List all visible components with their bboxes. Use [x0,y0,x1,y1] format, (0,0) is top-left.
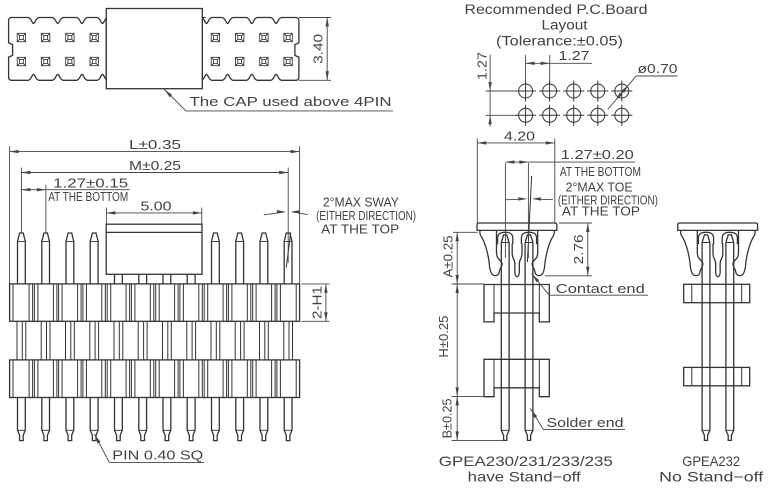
dimension 5.00 (cap width front view) [105,208,107,224]
top view pin square row2 col2 (left) [41,57,50,65]
sway indicator arcs and arrows [264,212,284,215]
front view cap top rib line [106,231,202,233]
front view pin 7 stub below cap [163,274,171,284]
crown left leg with claw hook [681,230,703,275]
front view bottom pin 11 with solder tip [260,398,268,441]
crown right leg with claw hook [532,230,554,275]
dimension 1.27±0.20 line [505,161,635,163]
crown top flange (cap side view) [678,223,758,230]
front view bottom pin 5 with solder tip [115,398,123,441]
svg-text:M±0.25: M±0.25 [129,158,181,173]
svg-text:2-H1: 2-H1 [310,286,325,319]
top view pin square row2 col3 (right) [260,57,268,65]
front view pin 8 stub below cap [187,274,195,284]
svg-text:5.00: 5.00 [141,198,172,213]
top view pin square row2 col2 (right) [236,57,244,65]
front view top pin 3 [66,233,74,284]
toe indicator arrows [506,198,525,201]
leader line for cap note [164,89,393,111]
front view bottom pin 7 with solder tip [163,398,171,441]
front view bottom pin 12 with solder tip [284,398,292,441]
PCB hole row1 col3 (circle with crosshair) [563,81,584,102]
front view top pin 1 [18,233,26,284]
svg-text:L±0.35: L±0.35 [129,137,181,152]
svg-text:Solder end: Solder end [547,415,624,430]
svg-text:1.27: 1.27 [559,48,590,63]
side view B pin 1 (left) [702,235,710,243]
crown right finger dome (pin tip cover) [722,232,737,244]
svg-text:(EITHER DIRECTION): (EITHER DIRECTION) [316,209,416,223]
svg-text:3.40: 3.40 [311,34,326,64]
crown left finger dome (pin tip cover) [498,232,513,244]
dimension B±0.25 [452,439,504,441]
front view top pin 10 [236,233,244,284]
svg-text:GPEA230/231/233/235: GPEA230/231/233/235 [439,453,613,469]
dimension extension lines for 1.27±0.20 (pin centerlines) [504,163,506,258]
PCB hole row2 col2 (circle with crosshair) [539,105,560,126]
svg-text:GPEA232: GPEA232 [682,453,740,469]
side view A upper insulator with stand-off feet [484,285,549,322]
svg-text:2.76: 2.76 [571,234,586,264]
leader Contact end [532,274,649,296]
crown right leg with claw hook [733,230,755,275]
side view A lower insulator with stand-off feet [484,359,549,396]
top view pin square row1 col3 (right) [260,33,268,41]
dimension 2.76 (crown height) [559,222,592,224]
svg-text:1.27±0.15: 1.27±0.15 [53,175,128,190]
leader Solder end [530,409,625,430]
dimension 1.27±0.15 [45,185,47,233]
svg-text:B±0.25: B±0.25 [439,398,454,438]
crown web left wall (curls to web bottom) [713,244,718,277]
front view pin 5 stub below cap [115,274,123,284]
PCB hole row2 col5 (circle with crosshair) [611,105,632,126]
top view pin square row1 col2 (left) [41,33,50,41]
crown left finger dome (pin tip cover) [698,232,713,244]
front view bottom pin 10 with solder tip [236,398,244,441]
PCB hole row2 col3 (circle with crosshair) [563,105,584,126]
svg-text:4.20: 4.20 [504,128,535,143]
front view pin 6 stub below cap [139,274,147,284]
front view top pin 12 [284,233,292,284]
svg-text:A±0.25: A±0.25 [440,236,455,278]
svg-text:AT THE BOTTOM: AT THE BOTTOM [48,190,128,204]
svg-text:2°MAX SWAY: 2°MAX SWAY [323,196,400,210]
PCB hole row2 col4 (circle with crosshair) [587,105,608,126]
side view A pin 1 (left) [501,235,509,243]
svg-text:Contact end: Contact end [556,281,645,296]
dimension H±0.25 [452,395,485,397]
front view bottom pin 8 with solder tip [187,398,195,441]
side view B lower insulator (no stand-off) [684,367,750,385]
dimension L±0.35 [9,146,11,284]
dimension 4.20 (cap width, side view) [476,139,478,224]
side view B pin 2 (right) [726,235,734,243]
dimension 1.27 horizontal (PCB col pitch) [525,55,527,83]
front view bottom pin 9 with solder tip [212,398,220,441]
svg-text:The CAP used above 4PIN: The CAP used above 4PIN [190,94,392,109]
front view bottom pin 2 with solder tip [42,398,50,441]
front view bottom pin 4 with solder tip [90,398,98,441]
top view: right housing body of header (scalloped outline) [201,18,299,81]
top view pin square row1 col1 (right) [211,33,219,41]
PCB hole row1 col2 (circle with crosshair) [539,81,560,102]
front view top pin 4 [90,233,98,284]
dimension 3.40 (cap top view height) [299,17,331,19]
crown web right wall (curls to web bottom) [718,244,723,277]
leader PIN 0.40 SQ [94,434,204,463]
crown top flange (cap side view) [477,223,557,230]
crown web left wall (curls to web bottom) [512,244,517,277]
top view pin square row1 col2 (right) [236,33,244,41]
crown left leg with claw hook [480,230,502,275]
front view top pin 11 [260,233,268,284]
front view top pin 9 [212,233,220,284]
cap (top view rectangle) [106,9,202,89]
svg-text:No Stand−off: No Stand−off [659,468,763,484]
side view B upper insulator (no stand-off) [684,284,750,302]
svg-text:PIN 0.40 SQ: PIN 0.40 SQ [112,448,203,463]
crown right finger dome (pin tip cover) [521,232,536,244]
top view pin square row2 col3 (left) [66,57,74,65]
front view bar1 internal pin-gap lines [13,284,296,321]
top view pin square row2 col1 (right) [211,57,219,65]
PCB hole row1 col4 (circle with crosshair) [587,81,608,102]
svg-text:AT THE TOP: AT THE TOP [562,205,640,219]
svg-text:H±0.25: H±0.25 [436,316,451,358]
top view: left housing body of header (scalloped outline) [9,18,108,81]
front view top pin 2 [42,233,50,284]
top view pin square row2 col4 (right) [284,57,292,65]
svg-text:1.27: 1.27 [475,52,490,80]
dimension M±0.25 [20,168,22,233]
side view A pin 2 (right) [525,235,533,243]
sway tilted lines on last pin [286,233,290,268]
toe tilted line on side view A pin 2 [527,176,531,262]
svg-text:Layout: Layout [542,17,588,32]
svg-text:have Stand−off: have Stand−off [468,468,581,484]
svg-text:ø0.70: ø0.70 [638,61,678,76]
dimension 1.27 vertical (PCB row pitch) [486,90,518,92]
top view pin square row1 col1 (left) [17,33,25,41]
front view bottom pin 3 with solder tip [66,398,74,441]
front view pins between bars [17,321,293,360]
svg-text:AT THE BOTTOM: AT THE BOTTOM [560,165,641,179]
PCB hole row1 col5 (circle with crosshair) [611,81,632,102]
top view pin square row1 col4 (left) [90,33,98,41]
top view pin square row2 col4 (left) [90,57,98,65]
front view bottom pin 1 with solder tip [18,398,26,441]
top view pin square row1 col4 (right) [284,33,292,41]
dimension 2-H1 (bar1 height) [302,283,330,285]
front view bar2 internal pin-gap lines [13,360,296,398]
svg-text:(Tolerance:±0.05): (Tolerance:±0.05) [496,34,623,49]
front view insulator bar 1 outline [10,284,300,321]
PCB hole row2 col1 (circle with crosshair) [515,105,536,126]
front view bottom pin 6 with solder tip [139,398,147,441]
top view pin square row1 col3 (left) [66,33,74,41]
dimension A±0.25 [453,231,478,233]
front view cap body (on pins 5-8) [106,224,202,274]
front view insulator bar 2 outline [10,360,300,398]
crown web right wall (curls to web bottom) [517,244,522,277]
svg-text:AT THE TOP: AT THE TOP [321,223,399,237]
svg-text:1.27±0.20: 1.27±0.20 [561,147,634,162]
PCB hole row1 col1 (circle with crosshair) [515,81,536,102]
svg-text:Recommended P.C.Board: Recommended P.C.Board [465,2,648,17]
top view pin square row2 col1 (left) [17,57,25,65]
